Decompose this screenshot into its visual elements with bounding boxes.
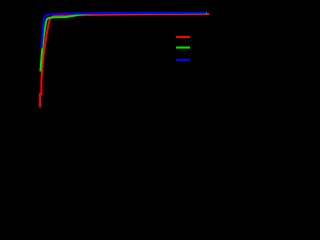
legend swatch green (176, 47, 190, 49)
legend swatch blue (176, 59, 190, 61)
legend swatch red (176, 36, 190, 38)
curve red (ROC curve 1) (40, 14, 209, 108)
curve green (ROC curve 2) (40, 13, 207, 71)
chart canvas (0, 0, 222, 155)
curve blue (ROC curve 3) (41, 13, 206, 48)
